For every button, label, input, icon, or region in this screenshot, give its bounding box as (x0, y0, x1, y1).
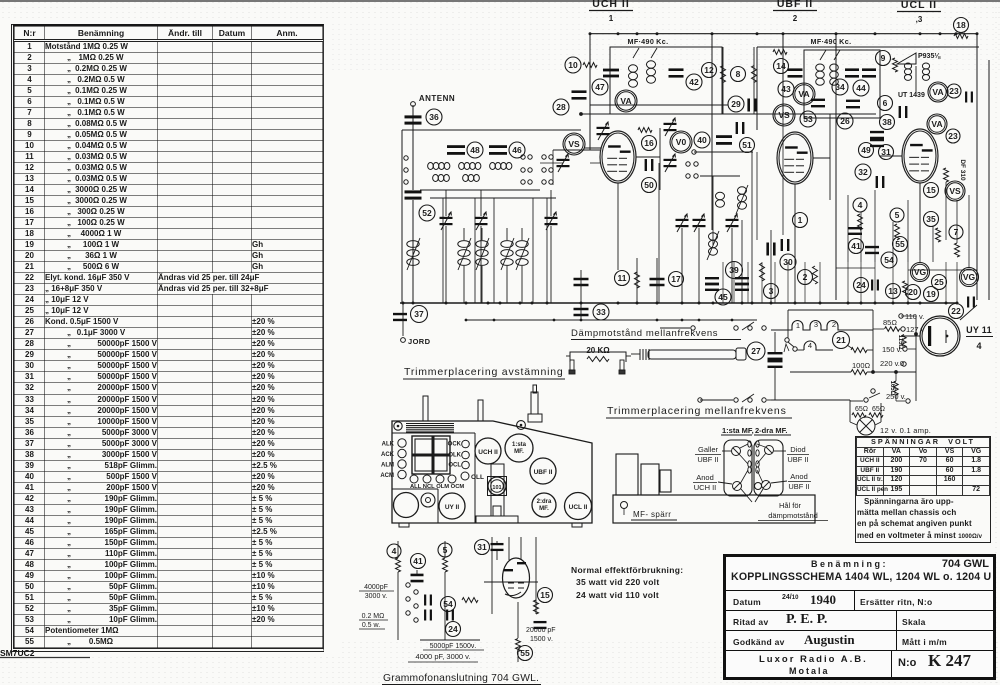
svg-text:OCL: OCL (448, 463, 461, 469)
svg-text:54: 54 (884, 255, 894, 265)
svg-text:51: 51 (742, 140, 752, 150)
svg-text:52: 52 (422, 208, 432, 218)
svg-text:UCH II: UCH II (694, 483, 717, 492)
svg-text:33: 33 (596, 307, 606, 317)
svg-text:VS: VS (568, 139, 580, 149)
svg-text:Anod: Anod (696, 473, 714, 482)
svg-text:4: 4 (976, 341, 981, 351)
svg-text:8: 8 (736, 69, 741, 79)
svg-text:36: 36 (429, 112, 439, 122)
svg-text:50: 50 (644, 180, 654, 190)
svg-text:UBF II: UBF II (788, 482, 809, 491)
svg-text:2:dra: 2:dra (537, 499, 552, 505)
svg-text:34: 34 (835, 82, 845, 92)
svg-text:VG: VG (914, 267, 927, 277)
svg-text:41: 41 (851, 241, 861, 251)
svg-text:18: 18 (956, 20, 966, 30)
svg-text:,3: ,3 (916, 15, 923, 24)
svg-text:43: 43 (781, 84, 791, 94)
svg-text:5: 5 (895, 210, 900, 220)
svg-text:48: 48 (470, 145, 480, 155)
svg-text:UY 11: UY 11 (966, 325, 992, 335)
svg-text:85Ω: 85Ω (883, 318, 897, 327)
svg-text:0.2 MΩ: 0.2 MΩ (362, 613, 385, 620)
svg-text:OLK: OLK (448, 453, 461, 459)
svg-text:VG: VG (963, 272, 976, 282)
svg-text:VA: VA (932, 87, 943, 97)
svg-text:V0: V0 (676, 137, 687, 147)
svg-text:250 v.: 250 v. (886, 392, 906, 401)
svg-text:Galler: Galler (698, 445, 719, 454)
svg-text:7: 7 (954, 227, 959, 237)
svg-text:55: 55 (895, 239, 905, 249)
svg-text:ALK: ALK (382, 442, 395, 448)
svg-text:4: 4 (808, 341, 812, 350)
svg-text:1500 ν.: 1500 ν. (530, 636, 553, 643)
svg-text:24 watt vid 110 volt: 24 watt vid 110 volt (576, 590, 659, 600)
svg-text:UCH II: UCH II (592, 0, 630, 10)
svg-text:10: 10 (568, 60, 578, 70)
svg-text:4: 4 (392, 546, 397, 556)
svg-text:16: 16 (644, 138, 654, 148)
svg-text:101: 101 (492, 485, 501, 491)
svg-text:VS: VS (949, 186, 961, 196)
svg-text:MF.: MF. (539, 506, 549, 512)
svg-text:29: 29 (731, 99, 741, 109)
svg-text:Trimmerplacering avstämning: Trimmerplacering avstämning (404, 366, 564, 378)
svg-text:UBF II: UBF II (534, 469, 553, 476)
svg-text:ANTENN: ANTENN (419, 94, 455, 103)
svg-text:OLL: OLL (471, 474, 484, 481)
svg-text:47: 47 (595, 82, 605, 92)
svg-text:UBF II: UBF II (697, 455, 718, 464)
svg-text:2: 2 (793, 14, 798, 23)
svg-text:37: 37 (414, 309, 424, 319)
svg-text:4000pF: 4000pF (364, 584, 388, 591)
svg-text:MF∙490 Kc.: MF∙490 Kc. (811, 37, 852, 46)
svg-text:UT 1439: UT 1439 (898, 92, 925, 99)
svg-text:11: 11 (618, 273, 627, 283)
svg-text:1: 1 (609, 14, 614, 23)
svg-text:110 v.: 110 v. (905, 312, 924, 321)
svg-text:65Ω: 65Ω (872, 406, 885, 413)
svg-text:2-dra MF.: 2-dra MF. (755, 426, 788, 435)
svg-text:46: 46 (512, 145, 522, 155)
svg-text:UBF II: UBF II (787, 455, 808, 464)
svg-text:0.5 w.: 0.5 w. (362, 622, 380, 629)
svg-text:UBF II: UBF II (777, 0, 813, 10)
svg-text:65Ω: 65Ω (855, 406, 868, 413)
svg-text:MF- spärr: MF- spärr (633, 510, 671, 519)
svg-text:Grammofonanslutning 704 GWL.: Grammofonanslutning 704 GWL. (383, 673, 539, 684)
svg-text:3: 3 (814, 320, 818, 329)
svg-text:35 watt vid 220 volt: 35 watt vid 220 volt (576, 577, 659, 587)
svg-text:Trimmerplacering mellanfrekve: Trimmerplacering mellanfrekvens (607, 405, 787, 417)
svg-text:3000 v.: 3000 v. (365, 593, 387, 600)
svg-text:ALL NCL OLM OCM: ALL NCL OLM OCM (410, 484, 464, 490)
svg-text:25: 25 (934, 277, 944, 287)
svg-text:ACM: ACM (380, 473, 394, 479)
svg-text:26: 26 (840, 116, 850, 126)
svg-text:4000 pF, 3000 v.: 4000 pF, 3000 v. (416, 652, 471, 661)
svg-text:100Ω: 100Ω (852, 361, 871, 370)
svg-text:28: 28 (556, 102, 566, 112)
svg-text:12: 12 (704, 65, 714, 75)
svg-text:27: 27 (751, 346, 761, 356)
svg-text:UCL II: UCL II (901, 0, 937, 11)
svg-text:Hål för: Hål för (779, 501, 802, 510)
svg-text:150 v.: 150 v. (882, 345, 902, 354)
svg-text:OCK: OCK (448, 442, 462, 448)
svg-text:35: 35 (926, 214, 936, 224)
svg-text:31: 31 (477, 542, 487, 552)
svg-text:41: 41 (413, 556, 423, 566)
svg-text:5000pF 1500ν.: 5000pF 1500ν. (430, 643, 477, 650)
svg-text:1: 1 (796, 321, 800, 330)
svg-text:14: 14 (776, 61, 786, 71)
svg-text:2: 2 (832, 320, 836, 329)
svg-text:VA: VA (931, 119, 942, 129)
svg-text:dämpmotstånd: dämpmotstånd (768, 511, 818, 520)
svg-text:VA: VA (798, 89, 809, 99)
svg-text:MF.: MF. (514, 449, 524, 455)
svg-text:Dämpmotstånd mellanfrekvens: Dämpmotstånd mellanfrekvens (571, 328, 718, 339)
svg-text:42: 42 (689, 77, 699, 87)
svg-text:15: 15 (540, 590, 550, 600)
svg-text:38: 38 (882, 117, 892, 127)
svg-text:9: 9 (881, 53, 886, 63)
svg-text:ALM: ALM (381, 463, 394, 469)
svg-text:DF 310: DF 310 (959, 159, 966, 181)
svg-text:24: 24 (448, 624, 458, 634)
svg-text:20: 20 (908, 287, 918, 297)
svg-text:P935⅛: P935⅛ (918, 53, 941, 60)
svg-text:23: 23 (948, 131, 958, 141)
svg-text:3: 3 (769, 286, 774, 296)
svg-text:53: 53 (803, 114, 813, 124)
svg-text:1:sta: 1:sta (512, 442, 527, 448)
svg-text:44: 44 (856, 83, 866, 93)
svg-text:Anod: Anod (790, 472, 808, 481)
svg-text:32: 32 (858, 167, 868, 177)
svg-text:21: 21 (836, 335, 846, 345)
svg-text:15: 15 (926, 185, 936, 195)
svg-text:1:sta MF,: 1:sta MF, (722, 426, 754, 435)
svg-text:49: 49 (861, 145, 871, 155)
svg-text:VS: VS (778, 110, 790, 120)
svg-text:JORD: JORD (408, 337, 431, 346)
svg-text:17: 17 (671, 274, 681, 284)
svg-text:55: 55 (520, 648, 530, 658)
svg-text:6: 6 (883, 98, 888, 108)
svg-text:1: 1 (798, 215, 803, 225)
svg-text:Normal effektförbrukning:: Normal effektförbrukning: (571, 565, 683, 575)
svg-text:Diod: Diod (790, 445, 805, 454)
svg-text:UY II: UY II (445, 504, 460, 511)
svg-text:23: 23 (949, 86, 959, 96)
svg-text:MF∙490 Kc.: MF∙490 Kc. (628, 37, 669, 46)
svg-text:12 v. 0.1 amp.: 12 v. 0.1 amp. (880, 426, 931, 435)
svg-text:ACK: ACK (381, 452, 395, 458)
svg-text:22: 22 (951, 306, 961, 316)
svg-text:40: 40 (697, 135, 707, 145)
svg-text:220 v.0: 220 v.0 (880, 359, 904, 368)
svg-text:20 KΩ: 20 KΩ (586, 346, 610, 355)
svg-text:UCH II: UCH II (478, 449, 498, 456)
svg-text:20000 pF: 20000 pF (526, 627, 556, 634)
svg-text:UCL II: UCL II (569, 504, 588, 511)
svg-text:4: 4 (858, 200, 863, 210)
svg-text:19: 19 (926, 289, 936, 299)
